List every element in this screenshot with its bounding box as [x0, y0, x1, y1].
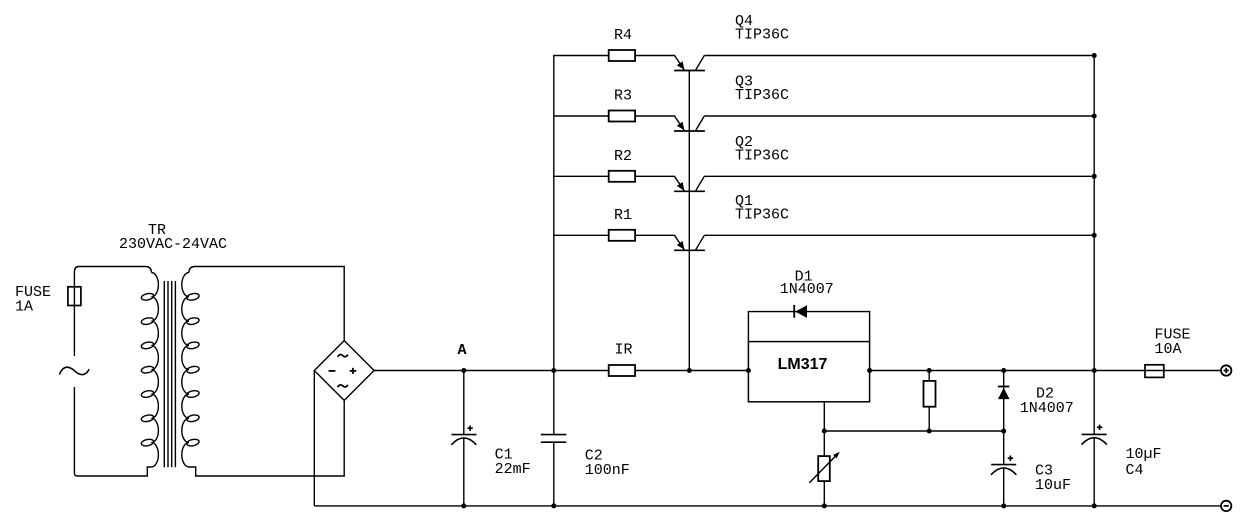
- label Q3 TIP36C: [735, 74, 789, 105]
- wire emitter level R1: [554, 234, 609, 236]
- resistor R5 (program): [924, 371, 936, 432]
- wire left riser (emitter resistor bus): [554, 56, 609, 371]
- wire emitter level R2: [554, 175, 609, 177]
- terminal minus output: [1221, 501, 1231, 511]
- svg-text:100nF: 100nF: [585, 462, 630, 479]
- wire bridge plus output (main wire start): [374, 370, 464, 372]
- transistor Q2 TIP36C: [636, 176, 705, 191]
- label C1 22mF: [495, 447, 531, 479]
- label Q2 TIP36C: [735, 134, 789, 165]
- svg-text:C4: C4: [1126, 462, 1144, 479]
- svg-text:TIP36C: TIP36C: [735, 147, 789, 164]
- label C2 100nF: [585, 448, 630, 480]
- svg-text:230VAC-24VAC: 230VAC-24VAC: [119, 236, 227, 253]
- label R4: [614, 27, 632, 44]
- junction dots on right rail: [1092, 53, 1097, 373]
- svg-text:R4: R4: [614, 27, 632, 44]
- wire secondary bottom (transformer to bridge): [189, 400, 344, 476]
- fuse F1 1A: [68, 273, 81, 357]
- svg-text:10uF: 10uF: [1035, 477, 1071, 494]
- resistor IR: [609, 365, 635, 376]
- diode D1 bypass loop: [748, 312, 869, 342]
- junction dot D2 top: [1001, 368, 1006, 373]
- svg-text:1N4007: 1N4007: [780, 281, 834, 298]
- wire collector Q2 to right rail: [704, 175, 1094, 177]
- label 10uF C4: [1126, 446, 1162, 479]
- label R3: [614, 88, 632, 105]
- label IR: [615, 342, 633, 359]
- terminal plus output: [1221, 365, 1231, 375]
- label FUSE 10A: [1155, 326, 1191, 358]
- diode D2: [998, 371, 1010, 432]
- bridge rectifier B1: [314, 341, 374, 401]
- capacitor C4: [1082, 425, 1107, 506]
- svg-text:22mF: 22mF: [495, 461, 531, 478]
- svg-text:TIP36C: TIP36C: [735, 206, 789, 223]
- wire bridge minus output to bottom rail: [313, 371, 315, 506]
- capacitor C1: [451, 371, 476, 506]
- wire LM317 adj pin: [823, 402, 825, 506]
- ac source V1: [60, 367, 90, 374]
- svg-text:R1: R1: [614, 207, 632, 224]
- resistor R4: [609, 50, 635, 61]
- resistor R3: [609, 111, 635, 122]
- svg-text:LM317: LM317: [778, 356, 828, 373]
- wire collector Q1 to right rail: [704, 234, 1094, 236]
- rheostat RV1: [809, 452, 840, 483]
- capacitor C2: [541, 371, 567, 506]
- label D1 1N4007: [780, 269, 834, 299]
- junction dot rheostat bottom: [822, 503, 827, 508]
- svg-text:TIP36C: TIP36C: [735, 27, 789, 44]
- resistor R1: [609, 230, 635, 241]
- junction dot C3 bottom: [1001, 503, 1006, 508]
- wire ac source to primary bottom: [74, 387, 151, 476]
- wire emitter level R3: [554, 115, 609, 117]
- label C3 10uF: [1035, 463, 1071, 495]
- junction dot D2 bottom: [1001, 429, 1006, 434]
- label D2 1N4007: [1020, 386, 1074, 418]
- label Q1 TIP36C: [735, 193, 789, 224]
- svg-text:TIP36C: TIP36C: [735, 87, 789, 104]
- label Q4 TIP36C: [735, 13, 789, 44]
- svg-text:R2: R2: [614, 148, 632, 165]
- junction dot node after IR (base bus): [687, 368, 692, 373]
- svg-text:10µF: 10µF: [1126, 446, 1162, 463]
- junction dot adj pin: [822, 429, 827, 434]
- label R1: [614, 207, 632, 224]
- label TR 230VAC-24VAC: [119, 222, 227, 253]
- svg-text:10A: 10A: [1155, 341, 1182, 358]
- junction dot C2 bottom: [551, 503, 556, 508]
- junction dot C4 bottom: [1092, 503, 1097, 508]
- junction dot C2 top: [551, 368, 556, 373]
- junction dot R5 bottom: [927, 429, 932, 434]
- junction dot R5 top: [927, 368, 932, 373]
- wire collector Q3 to right rail: [704, 115, 1094, 117]
- junction dot C1 bottom: [461, 503, 466, 508]
- svg-text:1N4007: 1N4007: [1020, 400, 1074, 417]
- transformer TR secondary winding: [182, 273, 200, 467]
- capacitor C3: [991, 431, 1016, 506]
- svg-text:A: A: [458, 342, 467, 359]
- regulator U1 LM317: [748, 342, 869, 402]
- label R2: [614, 148, 632, 165]
- wire bottom rail (0V): [314, 505, 1220, 507]
- wire primary top (fuse to transformer): [74, 267, 151, 273]
- wire right rail (collectors to output): [1093, 56, 1095, 435]
- svg-text:R3: R3: [614, 88, 632, 105]
- transistor Q1 TIP36C: [636, 235, 705, 250]
- wire transistor base bus: [688, 71, 690, 371]
- svg-text:1A: 1A: [15, 299, 33, 316]
- resistor R2: [609, 171, 635, 182]
- wire main dc rail: [464, 370, 1221, 372]
- junction dot LM317 input: [746, 368, 751, 373]
- node A: [458, 342, 467, 373]
- transformer TR primary winding: [141, 273, 159, 467]
- wire secondary top (transformer to bridge): [189, 267, 344, 341]
- transistor Q3 TIP36C: [636, 116, 705, 131]
- transistor Q4 TIP36C: [636, 56, 705, 71]
- junction dot LM317 output: [867, 368, 872, 373]
- fuse F2 10A: [1145, 365, 1164, 378]
- transformer TR core: [164, 281, 175, 467]
- diode D1: [794, 305, 807, 318]
- wire collector Q4 to right rail: [704, 55, 1094, 57]
- wire adj horizontal: [824, 430, 1003, 432]
- label FUSE 1A: [15, 284, 51, 316]
- svg-text:IR: IR: [615, 342, 633, 359]
